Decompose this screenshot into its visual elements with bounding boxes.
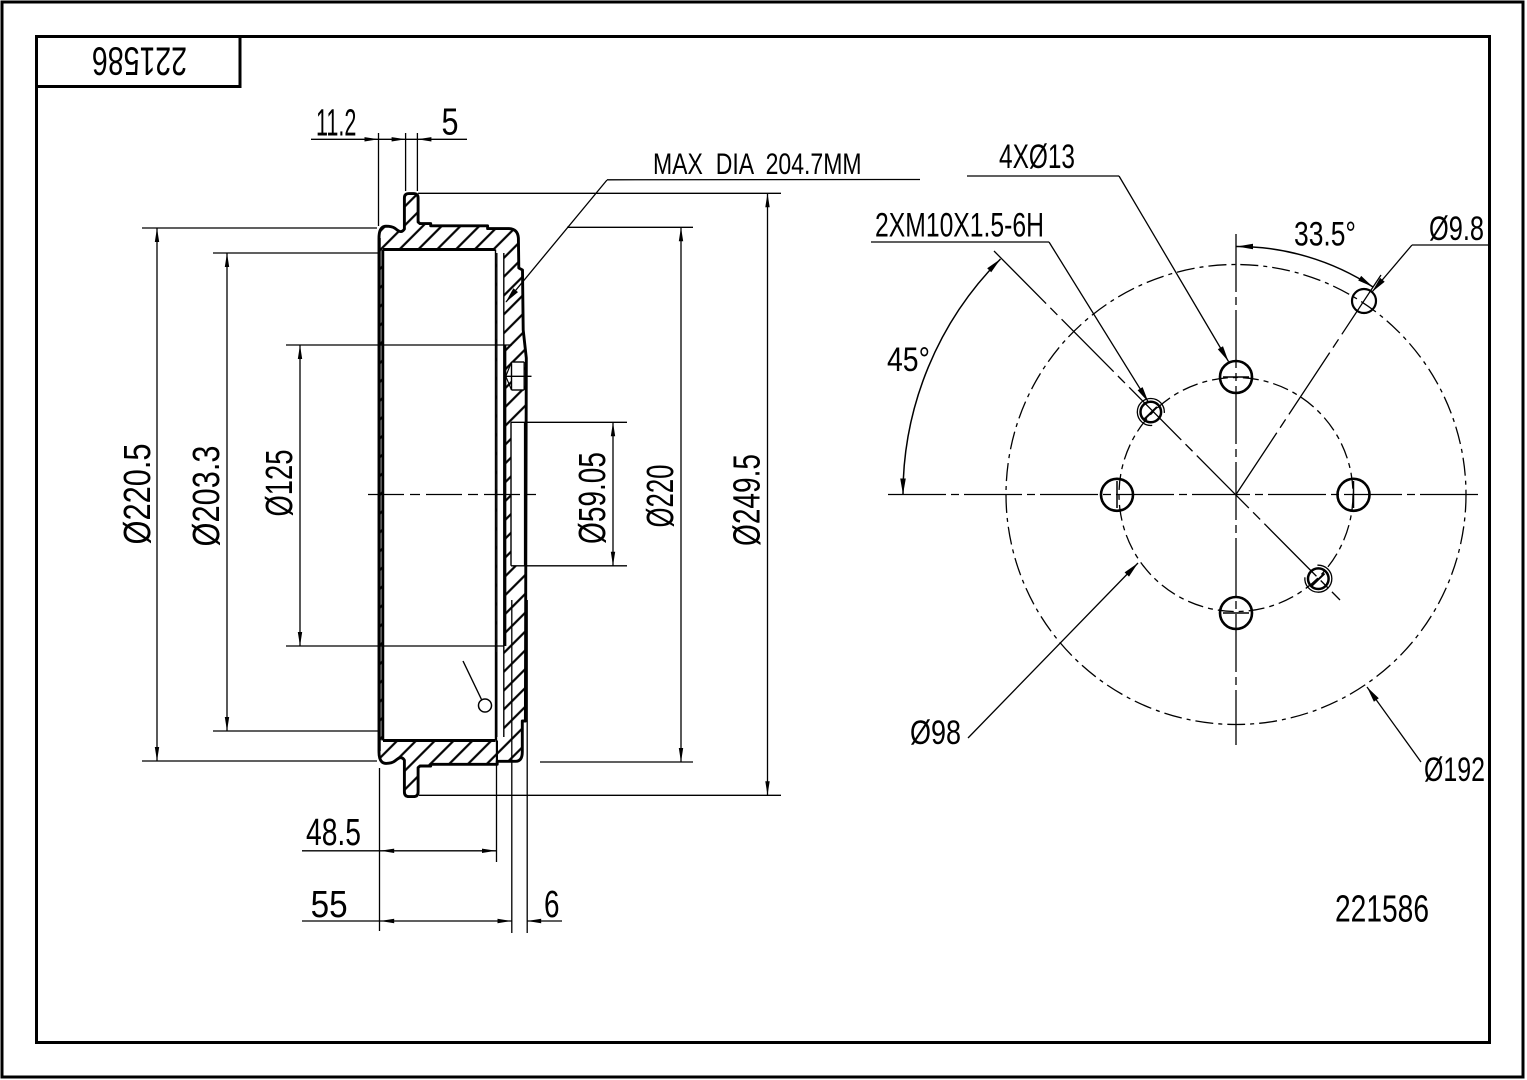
svg-text:4XØ13: 4XØ13: [999, 138, 1075, 176]
svg-text:45°: 45°: [887, 341, 930, 379]
svg-text:55: 55: [311, 883, 348, 926]
svg-text:Ø220.5: Ø220.5: [117, 444, 159, 545]
svg-text:48.5: 48.5: [306, 812, 361, 854]
svg-text:5: 5: [442, 101, 459, 143]
svg-text:Ø220: Ø220: [639, 465, 681, 528]
svg-text:Ø9.8: Ø9.8: [1429, 211, 1484, 248]
svg-text:11.2: 11.2: [316, 101, 356, 144]
svg-text:2XM10X1.5-6H: 2XM10X1.5-6H: [875, 207, 1044, 245]
svg-text:221586: 221586: [1335, 889, 1429, 931]
svg-text:Ø192: Ø192: [1424, 751, 1485, 789]
svg-text:Ø249.5: Ø249.5: [727, 454, 769, 546]
svg-text:221586: 221586: [92, 38, 187, 82]
svg-text:Ø59.05: Ø59.05: [572, 452, 614, 544]
svg-text:Ø125: Ø125: [259, 450, 301, 517]
svg-text:MAX DIA 204.7MM: MAX DIA 204.7MM: [653, 147, 862, 181]
svg-text:6: 6: [544, 884, 560, 926]
svg-text:Ø98: Ø98: [910, 713, 961, 752]
svg-text:33.5°: 33.5°: [1294, 215, 1356, 253]
svg-text:Ø203.3: Ø203.3: [186, 446, 228, 547]
